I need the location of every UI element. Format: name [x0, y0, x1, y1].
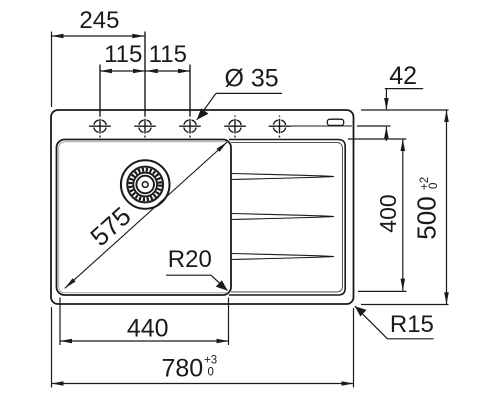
- drainboard bevel: [231, 143, 342, 292]
- bowl inner shadow: [59, 142, 228, 293]
- svg-text:42: 42: [389, 62, 417, 90]
- label 500 with tolerance: [412, 177, 442, 240]
- dimension 575 diagonal: [65, 142, 228, 288]
- svg-text:115: 115: [149, 41, 187, 68]
- svg-text:780: 780: [161, 354, 203, 382]
- dimension 115 left: [100, 69, 145, 74]
- dimension 780: [52, 381, 354, 386]
- drainboard groove 1: [231, 174, 335, 180]
- svg-text:Ø 35: Ø 35: [225, 64, 279, 92]
- dimension 500: [444, 110, 449, 304]
- drain teeth ring inner edge: [133, 173, 157, 197]
- extension line bowl left (440): [59, 298, 61, 346]
- svg-text:245: 245: [79, 7, 119, 34]
- dimension 245: [52, 34, 145, 39]
- svg-text:500: 500: [412, 196, 442, 239]
- drain inner circle: [136, 176, 154, 194]
- svg-text:115: 115: [104, 41, 142, 68]
- extension line rim inner (42): [357, 125, 391, 127]
- svg-text:R20: R20: [168, 246, 212, 273]
- tap hole 5: [269, 115, 291, 137]
- bowl outline: [57, 140, 232, 296]
- dimension 115 right: [145, 69, 190, 74]
- extension line bottom right (500): [361, 304, 449, 306]
- svg-text:575: 575: [84, 201, 136, 252]
- extension line drainboard bottom (400): [358, 290, 407, 292]
- extension line top right (42/500): [361, 109, 449, 111]
- overflow slot: [327, 119, 343, 125]
- drain outer ring: [121, 160, 170, 209]
- extension line right (780): [353, 308, 355, 388]
- leader diameter 35: [197, 93, 282, 119]
- drainboard groove 3: [231, 254, 335, 260]
- rim inner top edge line: [290, 125, 352, 127]
- tap hole 4: [224, 115, 246, 137]
- svg-text:400: 400: [375, 194, 401, 232]
- svg-text:0: 0: [428, 183, 440, 189]
- dimension 42: [384, 89, 423, 141]
- tap hole 3: [179, 65, 201, 138]
- drain center hole: [142, 182, 148, 188]
- drain teeth ring outer edge: [127, 167, 163, 203]
- tap hole 1: [89, 65, 111, 138]
- sink outer rim: [51, 110, 354, 304]
- drain teeth: [130, 170, 160, 200]
- svg-text:0: 0: [208, 367, 214, 379]
- svg-text:+3: +3: [204, 355, 217, 367]
- dimension 440: [60, 339, 229, 344]
- extension line divider (440): [228, 298, 230, 346]
- drainboard groove 2: [231, 214, 335, 220]
- tap hole 2: [134, 32, 156, 138]
- dimension 400: [401, 139, 406, 291]
- extension line left (780/245): [51, 32, 53, 108]
- leader R20: [166, 275, 228, 290]
- svg-text:440: 440: [127, 314, 169, 342]
- drainboard outline: [229, 140, 345, 296]
- leader R15: [355, 306, 434, 339]
- extension line drainboard top (400): [348, 138, 407, 140]
- svg-text:R15: R15: [390, 311, 434, 338]
